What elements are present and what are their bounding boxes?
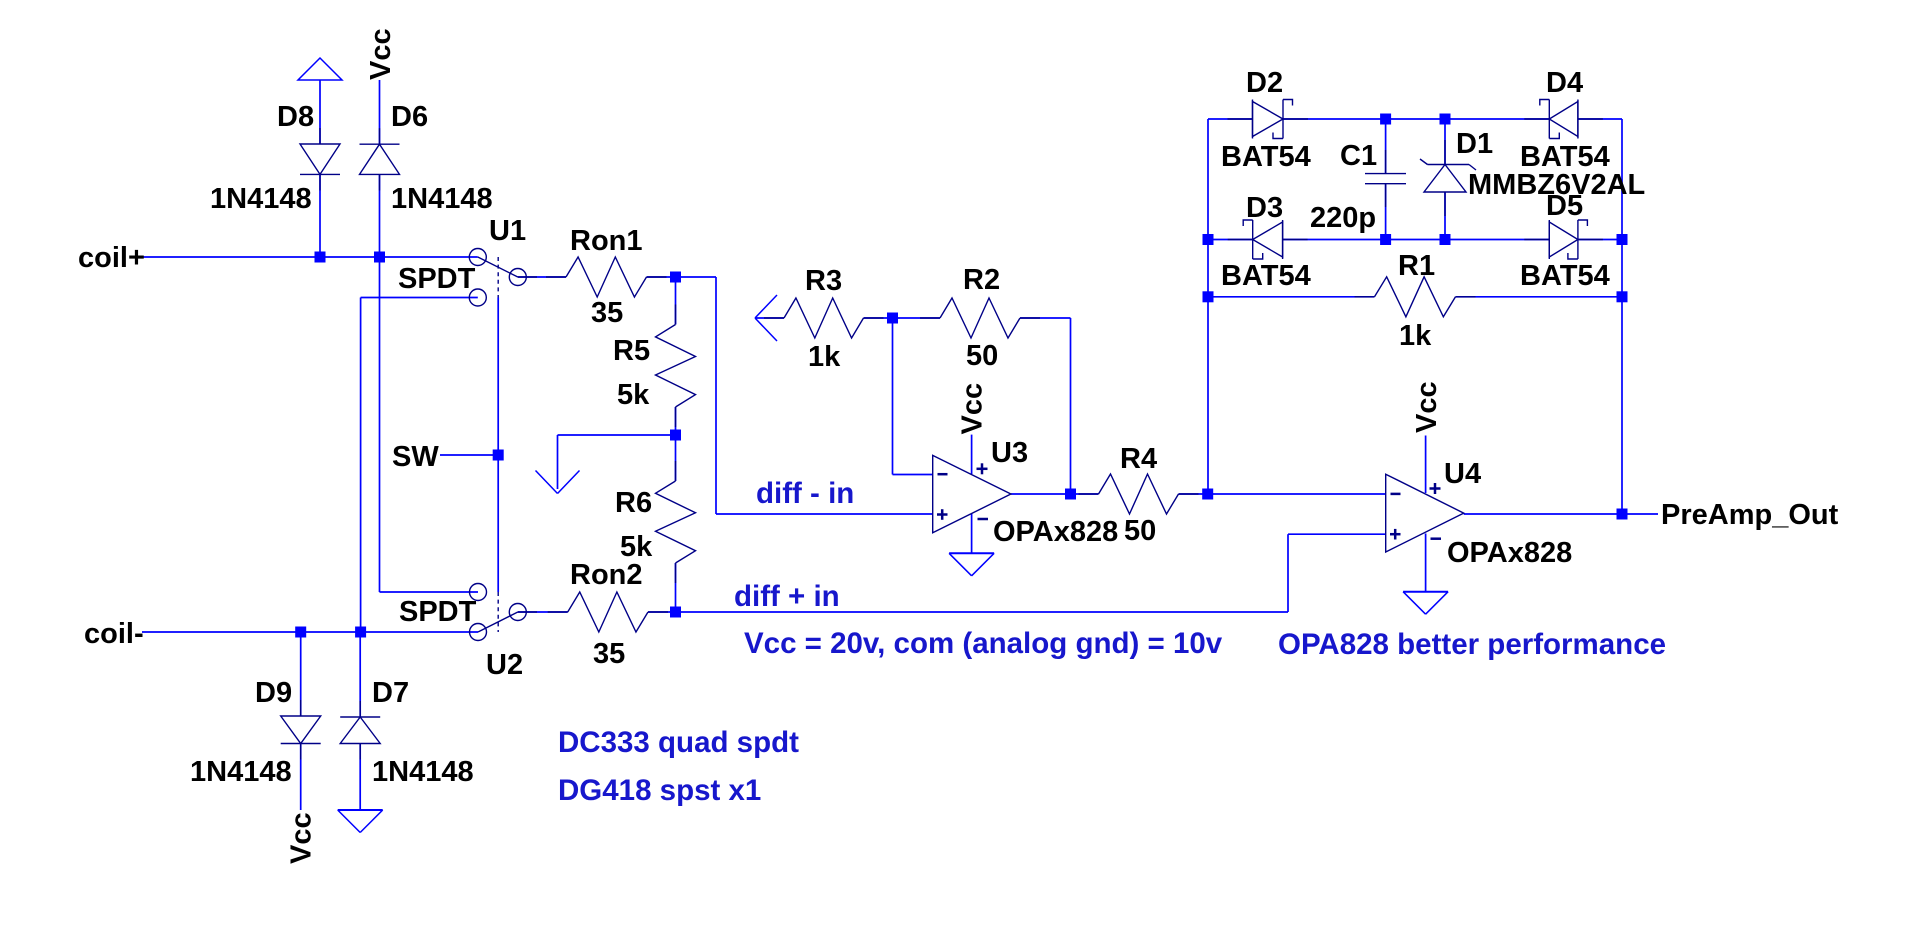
- diode D8 1N4148: [300, 144, 340, 174]
- ground flag below U4: [1403, 591, 1448, 593]
- svg-text:BAT54: BAT54: [1221, 141, 1311, 173]
- svg-text:R3: R3: [805, 265, 842, 297]
- svg-text:R1: R1: [1398, 250, 1435, 282]
- junction node 20: [1617, 509, 1628, 520]
- junction node 19: [1617, 291, 1628, 302]
- resistor R2 50: [940, 298, 1020, 338]
- wire Vcc to coil+ junction: [379, 80, 381, 144]
- svg-text:220p: 220p: [1310, 202, 1376, 234]
- ground flag below U3: [949, 552, 994, 554]
- wire clamp top rail: [1208, 118, 1253, 120]
- wire clamp node to U4 minus: [1208, 493, 1386, 495]
- wire R2 right down to output: [1020, 317, 1071, 319]
- svg-text:35: 35: [593, 638, 625, 670]
- svg-text:1N4148: 1N4148: [190, 756, 292, 788]
- wire Ron1 to node: [647, 276, 676, 278]
- junction node 5: [670, 272, 681, 283]
- schottky diode D5 BAT54: [1549, 222, 1578, 257]
- wire U3 power bottom: [971, 514, 973, 554]
- wire SW label stub: [440, 454, 498, 456]
- svg-text:DC333 quad spdt: DC333 quad spdt: [558, 726, 799, 759]
- wire node down to U3 minus: [892, 318, 894, 475]
- wire coil+ horizontal: [142, 256, 478, 258]
- svg-text:D5: D5: [1546, 190, 1583, 222]
- svg-text:BAT54: BAT54: [1520, 260, 1610, 292]
- junction node 1: [315, 252, 326, 263]
- junction node 7: [493, 450, 504, 461]
- svg-text:OPAx828: OPAx828: [993, 516, 1118, 548]
- svg-text:D6: D6: [391, 101, 428, 133]
- junction node 6: [670, 430, 681, 441]
- diode D9 1N4148: [281, 716, 321, 744]
- wire D9 leads: [300, 632, 302, 716]
- svg-text:U4: U4: [1444, 458, 1481, 490]
- svg-text:Ron1: Ron1: [570, 225, 643, 257]
- svg-text:SW: SW: [392, 441, 439, 473]
- wire clamp left vertical: [1207, 119, 1209, 494]
- com arrow left of R3: [755, 295, 777, 318]
- svg-text:1N4148: 1N4148: [372, 756, 474, 788]
- svg-text:OPAx828: OPAx828: [1447, 537, 1572, 569]
- wire node to R2: [893, 317, 941, 319]
- svg-text:1N4148: 1N4148: [391, 183, 493, 215]
- wire R6 bottom: [675, 563, 677, 612]
- op-amp U3 OPAx828: [933, 455, 1011, 532]
- resistor R1 1k: [1375, 277, 1456, 317]
- resistor R6 5k: [656, 481, 696, 563]
- wire U1 throw to coil-: [361, 297, 478, 299]
- svg-text:R2: R2: [963, 264, 1000, 296]
- svg-text:D8: D8: [277, 101, 314, 133]
- wire D7 leads: [359, 632, 361, 717]
- ground flag below D7: [338, 809, 383, 811]
- svg-text:OPA828 better performance: OPA828 better performance: [1278, 628, 1666, 661]
- svg-text:50: 50: [966, 340, 998, 372]
- svg-text:35: 35: [591, 297, 623, 329]
- junction node 3: [295, 627, 306, 638]
- wire U2 output to Ron2: [518, 611, 568, 613]
- wire C1 leads: [1385, 119, 1387, 174]
- svg-text:D3: D3: [1246, 192, 1283, 224]
- svg-text:U3: U3: [991, 437, 1028, 469]
- wire U4 power bottom: [1425, 534, 1427, 592]
- wire SW row to com arrow: [558, 434, 676, 436]
- svg-text:R5: R5: [613, 335, 650, 367]
- wire U4 power top: [1425, 436, 1427, 494]
- diode D6 1N4148: [360, 144, 400, 174]
- resistor R4 50: [1099, 474, 1179, 514]
- svg-text:50: 50: [1124, 515, 1156, 547]
- svg-text:coil-: coil-: [84, 618, 144, 650]
- svg-text:coil+: coil+: [78, 242, 145, 274]
- wire SW control line: [497, 298, 499, 593]
- junction node 4: [355, 627, 366, 638]
- zener diode D1 MMBZ6V2AL: [1424, 165, 1466, 193]
- diode D7 1N4148: [340, 717, 380, 744]
- wire coil+ down to U2 throw: [379, 257, 381, 592]
- junction node 18: [1203, 291, 1214, 302]
- wire D8 vertical: [319, 80, 321, 144]
- svg-text:D7: D7: [372, 677, 409, 709]
- svg-text:U1: U1: [489, 215, 526, 247]
- svg-text:diff + in: diff + in: [734, 580, 840, 613]
- Vcc up-arrow flag above D8: [298, 58, 342, 80]
- svg-text:Ron2: Ron2: [570, 559, 643, 591]
- capacitor C1 220p: [1365, 173, 1406, 175]
- svg-text:D1: D1: [1456, 128, 1493, 160]
- wire R5 bottom to SW row: [675, 407, 677, 435]
- svg-text:Vcc: Vcc: [286, 812, 318, 864]
- svg-text:DG418 spst x1: DG418 spst x1: [558, 774, 761, 807]
- wire R5 top: [675, 277, 677, 325]
- resistor Ron1 35: [566, 257, 647, 297]
- wire D1 leads: [1444, 119, 1446, 165]
- junction node 14: [1380, 234, 1391, 245]
- schottky diode D2 BAT54: [1253, 102, 1284, 137]
- wire U3 power top: [971, 435, 973, 474]
- svg-text:PreAmp_Out: PreAmp_Out: [1661, 499, 1839, 531]
- wire clamp bottom rail R1 row: [1208, 296, 1375, 298]
- wire U1 output to Ron1: [518, 276, 566, 278]
- wire R4 to clamp node: [1179, 493, 1208, 495]
- junction node 11: [1202, 489, 1213, 500]
- resistor R3 1k: [784, 298, 864, 338]
- wire com arrow to R3: [755, 317, 784, 319]
- wire diff- path: [676, 276, 717, 278]
- svg-text:diff - in: diff - in: [756, 477, 854, 510]
- wire R6 top: [675, 435, 677, 481]
- wire coil- horizontal: [142, 631, 478, 633]
- op-amp U4 OPAx828: [1386, 474, 1464, 552]
- wire diff+ row: [676, 611, 1289, 613]
- svg-text:Vcc: Vcc: [365, 28, 397, 80]
- junction node 17: [1617, 234, 1628, 245]
- junction node 8: [670, 607, 681, 618]
- svg-text:BAT54: BAT54: [1520, 141, 1610, 173]
- schottky diode D3 BAT54: [1253, 222, 1283, 257]
- switch U2 SPDT: [478, 612, 518, 632]
- junction node 10: [1065, 489, 1076, 500]
- svg-text:Vcc = 20v, com (analog gnd) =: Vcc = 20v, com (analog gnd) = 10v: [744, 627, 1223, 660]
- svg-text:5k: 5k: [617, 379, 650, 411]
- junction node 2: [374, 252, 385, 263]
- resistor Ron2 35: [568, 592, 648, 632]
- svg-text:1N4148: 1N4148: [210, 183, 312, 215]
- wire diff+ up to U4 plus: [1287, 534, 1289, 612]
- svg-text:1k: 1k: [1399, 320, 1432, 352]
- svg-text:Vcc: Vcc: [957, 383, 989, 435]
- svg-text:C1: C1: [1340, 140, 1377, 172]
- junction node 15: [1440, 234, 1451, 245]
- wire Ron2 to node: [648, 611, 676, 613]
- svg-text:BAT54: BAT54: [1221, 260, 1311, 292]
- schottky diode D4 BAT54: [1549, 102, 1578, 137]
- svg-text:SPDT: SPDT: [398, 263, 476, 295]
- svg-text:SPDT: SPDT: [399, 596, 477, 628]
- wire U3 output to R4: [1011, 493, 1099, 495]
- wire clamp mid rail: [1208, 239, 1253, 241]
- junction node 12: [1380, 114, 1391, 125]
- resistor R5 5k: [656, 325, 696, 408]
- svg-text:U2: U2: [486, 649, 523, 681]
- svg-text:Vcc: Vcc: [1411, 381, 1443, 433]
- svg-text:R6: R6: [615, 487, 652, 519]
- svg-text:R4: R4: [1120, 443, 1157, 475]
- switch U1 SPDT: [478, 257, 518, 277]
- junction node 13: [1440, 114, 1451, 125]
- com arrow below SW row: [536, 471, 558, 494]
- svg-text:D9: D9: [255, 677, 292, 709]
- svg-text:1k: 1k: [808, 341, 841, 373]
- junction node 9: [887, 313, 898, 324]
- svg-text:D4: D4: [1546, 67, 1583, 99]
- junction node 16: [1203, 234, 1214, 245]
- wire clamp right vertical: [1621, 119, 1623, 514]
- svg-text:D2: D2: [1246, 67, 1283, 99]
- wire R3 to node: [864, 317, 893, 319]
- wire U4 output / PreAmp_Out: [1464, 513, 1658, 515]
